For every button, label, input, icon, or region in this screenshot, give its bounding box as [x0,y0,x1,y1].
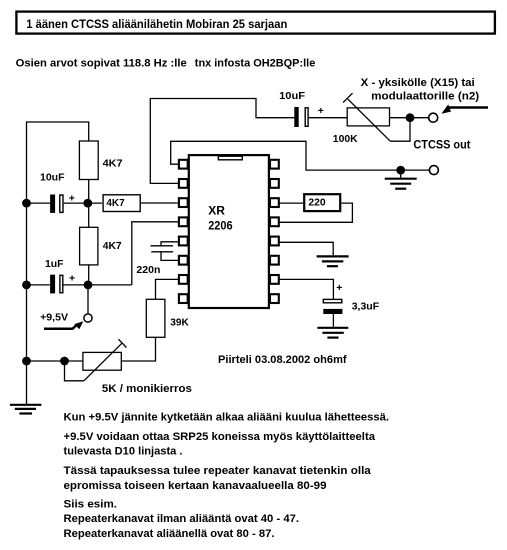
wire R2 to pin3 [141,202,179,204]
resistor R4 39K [146,299,165,337]
svg-text:Piirteli 03.08.2002 oh6mf: Piirteli 03.08.2002 oh6mf [218,354,347,366]
wire B down to +9.5V terminal [87,285,89,314]
svg-text:epromissa toiseen kertaan kana: epromissa toiseen kertaan kanavaalueella… [64,480,327,492]
ground G4 [317,328,348,338]
svg-text:tnx infosta OH2BQP:lle: tnx infosta OH2BQP:lle [195,58,315,70]
node dot B [84,281,93,290]
node dot A [83,199,92,208]
svg-text:X - yksikölle (X15) tai: X - yksikölle (X15) tai [361,77,475,89]
capacitor C5 3,3uF [323,282,342,327]
ground G2 [385,170,417,189]
svg-text:Kun +9.5V jännite kytketään al: Kun +9.5V jännite kytketään alkaa aliään… [64,411,390,423]
svg-text:10uF: 10uF [279,90,306,102]
R6 wiper tick [343,93,352,102]
svg-text:1 äänen CTCSS aliäänilähetin M: 1 äänen CTCSS aliäänilähetin Mobiran 25 … [26,19,287,31]
svg-text:220n: 220n [136,264,160,276]
wire R1 top lead [88,122,90,141]
svg-text:+: + [69,273,75,285]
arrow to +9.5V [44,325,77,329]
capacitor C2 1uF [50,273,75,294]
ground G3 [317,256,349,266]
terminal +9.5V circle [84,314,92,322]
wire R1 bottom lead [88,180,90,204]
wire left rail [26,122,28,405]
wire R3 bottom [88,265,90,285]
U1 notch [218,156,242,160]
svg-text:4K7: 4K7 [103,157,123,169]
wire pin5R to ground [279,242,334,255]
svg-text:3,3uF: 3,3uF [352,301,380,313]
capacitor C3 10uF [294,105,324,127]
wire rail to 5K pot [27,360,83,362]
wire up to pin4 [132,222,179,285]
capacitor C4 220n [151,242,180,261]
svg-text:XR: XR [208,203,225,217]
svg-text:1uF: 1uF [45,258,64,270]
svg-text:Tässä tapauksessa tulee repeat: Tässä tapauksessa tulee repeater kanavat… [64,465,372,477]
svg-text:modulaattorille (n2): modulaattorille (n2) [371,90,479,102]
svg-text:CTCSS out: CTCSS out [413,138,470,152]
terminal circle out1 [429,113,438,122]
svg-text:39K: 39K [170,317,189,329]
svg-text:Osien arvot sopivat 118.8 Hz :: Osien arvot sopivat 118.8 Hz :lle [16,58,187,70]
U1 right pins [270,160,279,303]
wire pin3R to R5 [279,202,305,204]
svg-text:4K7: 4K7 [106,197,124,209]
wire top-left horizontal [26,121,89,123]
wire 5K to 39K [121,337,155,361]
title box [16,12,495,34]
svg-text:tulevasta D10 linjasta .: tulevasta D10 linjasta . [64,445,183,457]
svg-text:+: + [336,282,342,294]
svg-text:220: 220 [308,197,325,209]
svg-text:+: + [318,105,324,117]
potentiometer R7 5K body [83,352,121,370]
R7 wiper diagonal [84,343,122,381]
wire C3 to R6 [309,117,348,119]
terminal circle out2 [429,166,438,175]
svg-text:2206: 2206 [208,218,233,232]
resistor R1 4K7 [79,141,98,180]
resistor R3 4K7 [80,227,98,265]
svg-text:5K / monikierros: 5K / monikierros [102,383,192,395]
wire R6 to out1 [390,117,430,119]
R6 wiper return wire [390,118,410,142]
resistor R5 220 box [304,194,340,211]
wire 39K to pin7 [156,279,180,299]
R7 wiper tick [118,339,126,347]
svg-text:+9,5V: +9,5V [40,311,68,323]
resistor R2 4K7 box [103,195,140,212]
capacitor C1 10uF [50,192,75,213]
wire pin7R to C5 [279,279,334,299]
svg-text:4K7: 4K7 [103,240,122,252]
wire A to R3 [88,203,90,227]
node dot rail-C2 [22,281,31,290]
svg-text:100K: 100K [333,133,358,145]
node dot rail-5K [22,357,31,366]
svg-text:Repeaterkanavat ilman aliääntä: Repeaterkanavat ilman aliääntä ovat 40 -… [64,513,300,525]
wire R5 loop to pin4R [279,203,353,222]
svg-text:+9.5V voidaan ottaa SRP25 kone: +9.5V voidaan ottaa SRP25 koneissa myös … [64,431,376,443]
svg-text:Repeaterkanavat aliäänellä ova: Repeaterkanavat aliäänellä ovat 80 - 87. [64,528,275,540]
wire pin1 loop to output gnd line [171,141,430,170]
svg-text:10uF: 10uF [40,172,65,184]
node dot out2 [396,166,405,175]
U1 left pins [179,160,188,303]
R6 wiper diagonal [348,99,391,141]
ground G1 [10,405,42,414]
node dot rail-C1 [22,199,31,208]
wire rail to C2 [27,284,50,286]
wire C1 to R2 [64,202,102,204]
potentiometer R6 100K body [347,108,389,126]
node dot out1 [406,113,415,122]
node dot 5K wiper [60,357,69,366]
svg-text:Siis esim.: Siis esim. [64,498,118,510]
arrow CTCSS out [449,106,488,109]
IC U1 XR2206 body [189,155,269,308]
wire rail to C1 [27,202,51,204]
wire pin2 loop to C3 [150,99,294,184]
wire C2 to x131.8 [64,284,132,286]
R7 wiper return wire [65,361,84,381]
